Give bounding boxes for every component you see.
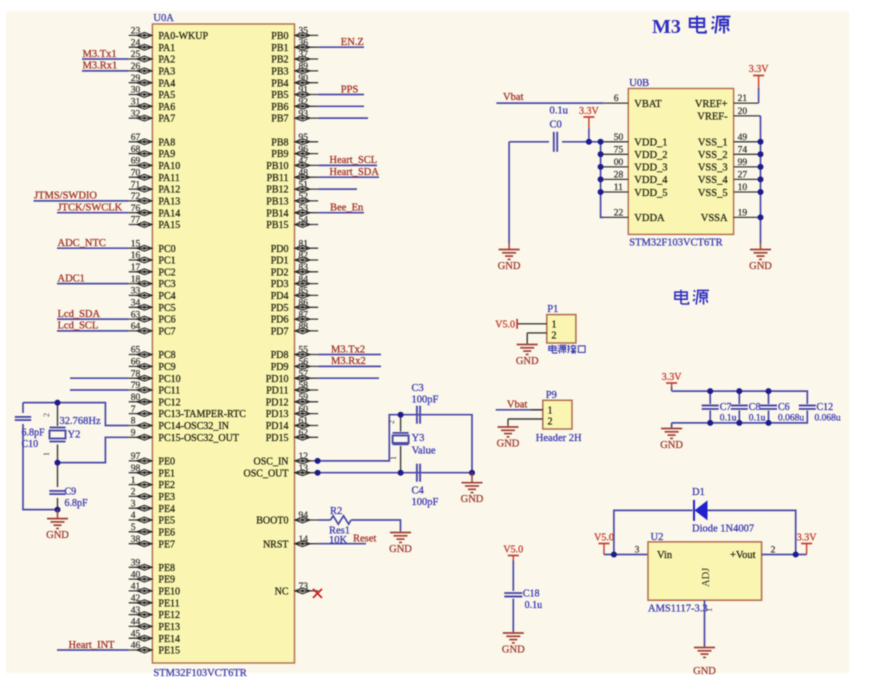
svg-text:38: 38 xyxy=(131,535,141,545)
svg-text:60: 60 xyxy=(299,405,309,415)
pin PC11 (79) U0A left xyxy=(129,381,181,396)
svg-text:ADJ: ADJ xyxy=(701,568,712,587)
svg-text:D1: D1 xyxy=(692,487,705,498)
svg-text:88: 88 xyxy=(299,322,309,332)
pin PE14 (45) U0A left xyxy=(129,629,180,644)
svg-text:21: 21 xyxy=(738,94,748,104)
pin VREF- (20) U0B right xyxy=(697,107,758,123)
svg-text:1: 1 xyxy=(389,456,398,460)
svg-text:99: 99 xyxy=(738,158,748,168)
svg-text:29: 29 xyxy=(131,74,141,84)
svg-text:58: 58 xyxy=(299,381,309,391)
svg-text:75: 75 xyxy=(614,145,624,155)
svg-text:PD6: PD6 xyxy=(271,315,289,326)
svg-text:PC7: PC7 xyxy=(158,327,175,338)
pin VSS_1 (49) U0B right xyxy=(698,133,758,149)
svg-text:PC8: PC8 xyxy=(158,350,175,361)
junction VSSA xyxy=(758,214,764,220)
pin PB0 (35) U0A right xyxy=(271,27,318,42)
pin PD1 (82) U0A right xyxy=(271,251,318,266)
pin VDD_3 (00) U0B left xyxy=(604,158,668,174)
pin PE2 (1) U0A left xyxy=(129,476,175,491)
wire BOOT0 to GND xyxy=(351,520,401,531)
svg-text:36: 36 xyxy=(299,38,309,48)
ground GND (C18) xyxy=(502,632,525,656)
pin ADJ (1) U2 xyxy=(701,568,714,612)
svg-text:+Vout: +Vout xyxy=(730,550,756,561)
pin PC14-OSC32_IN (8) U0A left xyxy=(129,417,229,432)
svg-text:P9: P9 xyxy=(546,390,557,401)
designator U2 xyxy=(651,532,664,543)
svg-text:PB15: PB15 xyxy=(266,220,288,231)
svg-text:72: 72 xyxy=(131,192,141,202)
pin VDDA (22) U0B left xyxy=(604,208,665,224)
svg-text:JTCK/SWCLK: JTCK/SWCLK xyxy=(58,203,123,214)
svg-text:Heart_SCL: Heart_SCL xyxy=(329,155,377,166)
svg-text:GND: GND xyxy=(502,644,525,655)
svg-text:PA3: PA3 xyxy=(158,67,175,78)
svg-text:PE0: PE0 xyxy=(158,457,175,468)
svg-text:PA9: PA9 xyxy=(158,149,175,160)
pin PB1 (36) U0A right xyxy=(271,38,318,53)
svg-text:Vbat: Vbat xyxy=(503,92,523,103)
pin PE5 (4) U0A left xyxy=(129,511,175,526)
net label M3.Rx2 + wire (PD9) xyxy=(318,356,381,367)
svg-text:89: 89 xyxy=(299,62,309,72)
svg-text:9: 9 xyxy=(131,429,136,439)
pin VREF+ (21) U0B right xyxy=(695,94,758,110)
wire C18 top xyxy=(512,561,514,592)
designator P1 xyxy=(547,304,558,315)
svg-text:PB3: PB3 xyxy=(271,67,288,78)
svg-text:PD2: PD2 xyxy=(271,267,289,278)
svg-text:95: 95 xyxy=(299,133,309,143)
svg-text:2: 2 xyxy=(552,331,557,342)
net label ADC_NTC + wire (PC0) xyxy=(57,238,129,249)
power port V5.0 (C18) xyxy=(503,545,523,561)
svg-text:Vbat: Vbat xyxy=(507,400,527,411)
ground GND (VSS) xyxy=(749,243,772,272)
comment Header 2H (P9) xyxy=(536,433,582,444)
pin PD9 (56) U0A right xyxy=(271,358,318,373)
svg-text:ADC_NTC: ADC_NTC xyxy=(58,238,106,249)
capacitor C8 0.1u xyxy=(731,391,766,423)
svg-text:Y3: Y3 xyxy=(412,433,425,444)
svg-text:PD8: PD8 xyxy=(271,350,289,361)
svg-text:18: 18 xyxy=(131,275,141,285)
IC U0B body xyxy=(628,89,733,235)
wire PB12 xyxy=(318,188,357,190)
svg-text:C10: C10 xyxy=(22,439,39,450)
svg-text:NC: NC xyxy=(275,587,289,598)
svg-text:PB6: PB6 xyxy=(271,102,288,113)
junction GND rail node xyxy=(469,470,475,476)
svg-text:0.1u: 0.1u xyxy=(550,106,569,117)
svg-text:PE7: PE7 xyxy=(158,539,175,550)
pin PA4 (29) U0A left xyxy=(129,74,176,89)
capacitor C0 0.1u xyxy=(550,106,569,152)
svg-text:49: 49 xyxy=(738,133,748,143)
capacitor C18 0.1u xyxy=(504,589,542,612)
pin PC8 (65) U0A left xyxy=(129,346,176,361)
ground GND (P9) xyxy=(497,425,520,450)
pin PA6 (31) U0A left xyxy=(129,98,176,113)
svg-text:Lcd_SCL: Lcd_SCL xyxy=(58,321,99,332)
svg-text:PA4: PA4 xyxy=(158,78,175,89)
svg-text:PC3: PC3 xyxy=(158,279,175,290)
svg-text:PC11: PC11 xyxy=(158,386,180,397)
svg-text:PE3: PE3 xyxy=(158,492,175,503)
svg-text:85: 85 xyxy=(299,287,309,297)
diode D1 1N4007 xyxy=(692,487,754,535)
svg-text:68: 68 xyxy=(131,145,141,155)
svg-text:44: 44 xyxy=(131,618,141,628)
pin PB10 (47) U0A right xyxy=(266,157,318,172)
svg-text:12: 12 xyxy=(299,452,309,462)
wire VSS stub xyxy=(758,191,760,193)
junction VDD bus xyxy=(598,189,604,195)
svg-text:2: 2 xyxy=(548,417,553,428)
power port 3.3V (VREF+) xyxy=(749,64,770,103)
power port 3.3V (C0) xyxy=(579,106,600,142)
pin PC10 (78) U0A left xyxy=(129,369,181,384)
svg-text:PD5: PD5 xyxy=(271,303,289,314)
pin VSS_5 (10) U0B right xyxy=(698,183,758,199)
pin PD15 (62) U0A right xyxy=(266,429,318,444)
svg-text:C7: C7 xyxy=(720,402,732,413)
svg-text:VREF+: VREF+ xyxy=(695,99,728,110)
junction VDD bus xyxy=(598,151,604,157)
svg-text:80: 80 xyxy=(131,393,141,403)
svg-text:98: 98 xyxy=(131,464,141,474)
wire OSC_OUT rail xyxy=(318,472,472,474)
svg-text:PA12: PA12 xyxy=(158,185,180,196)
svg-text:51: 51 xyxy=(299,180,309,190)
svg-text:C0: C0 xyxy=(550,120,562,131)
pin PC4 (33) U0A left xyxy=(129,287,176,302)
wire VSS stub xyxy=(758,166,760,168)
svg-text:66: 66 xyxy=(131,358,141,368)
svg-text:U0A: U0A xyxy=(153,13,174,24)
net label JTCK/SWCLK + wire (PA14) xyxy=(57,203,129,214)
svg-text:11: 11 xyxy=(614,183,623,193)
svg-text:10K: 10K xyxy=(329,535,348,546)
svg-text:0.068u: 0.068u xyxy=(778,414,804,424)
svg-text:PC9: PC9 xyxy=(158,362,175,373)
pin PE12 (43) U0A left xyxy=(129,606,180,621)
pin PB3 (89) U0A right xyxy=(271,62,318,77)
svg-text:PE4: PE4 xyxy=(158,504,175,515)
wire PD10 xyxy=(318,377,379,379)
svg-text:M3.Rx1: M3.Rx1 xyxy=(83,61,118,72)
pin VDD_5 (11) U0B left xyxy=(604,183,668,199)
svg-text:91: 91 xyxy=(299,86,309,96)
ground GND (BOOT0) xyxy=(389,531,412,555)
wire diode loop xyxy=(614,510,796,554)
wire cap bank bottom rail xyxy=(672,411,808,423)
svg-text:GND: GND xyxy=(46,530,69,541)
junction VDD bus xyxy=(598,164,604,170)
svg-text:PC5: PC5 xyxy=(158,303,175,314)
svg-text:PB7: PB7 xyxy=(271,114,288,125)
power port 3.3V (cap bank) xyxy=(662,372,683,391)
svg-text:00: 00 xyxy=(614,158,624,168)
svg-text:59: 59 xyxy=(299,393,309,403)
pin PE3 (2) U0A left xyxy=(129,488,175,503)
title M3 dianyuan xyxy=(652,16,730,38)
svg-text:71: 71 xyxy=(131,180,141,190)
pin 1 (P1) xyxy=(517,320,556,331)
svg-text:73: 73 xyxy=(299,582,309,592)
svg-text:15: 15 xyxy=(131,239,141,249)
pin PC12 (80) U0A left xyxy=(129,393,181,408)
net label Lcd_SCL + wire (PC7) xyxy=(57,321,129,332)
pin PA5 (30) U0A left xyxy=(129,86,176,101)
svg-text:1: 1 xyxy=(552,320,557,331)
pin PC15-OSC32_OUT (9) U0A left xyxy=(129,429,239,444)
svg-text:PB1: PB1 xyxy=(271,43,288,54)
pin PA8 (67) U0A left xyxy=(129,133,176,148)
svg-text:3.3V: 3.3V xyxy=(749,64,770,75)
svg-text:16: 16 xyxy=(131,251,141,261)
power port V5.0 (U2 in) xyxy=(594,533,614,555)
pin OSC_OUT (13) U0A right xyxy=(243,464,318,479)
wire OSC_IN to crystal top xyxy=(318,415,400,461)
svg-text:33: 33 xyxy=(131,287,141,297)
svg-text:6.8pF: 6.8pF xyxy=(65,498,89,509)
pin VSSA (19) U0B right xyxy=(701,208,758,224)
pin PB5 (91) U0A right xyxy=(271,86,318,101)
svg-text:PD1: PD1 xyxy=(271,256,289,267)
svg-text:C9: C9 xyxy=(65,487,77,498)
svg-text:2: 2 xyxy=(42,413,51,417)
svg-text:19: 19 xyxy=(738,208,748,218)
svg-text:PD10: PD10 xyxy=(266,374,289,385)
svg-text:U2: U2 xyxy=(651,532,664,543)
svg-text:GND: GND xyxy=(497,438,520,449)
svg-text:PC2: PC2 xyxy=(158,267,175,278)
svg-text:63: 63 xyxy=(131,310,141,320)
pin PC1 (16) U0A left xyxy=(129,251,176,266)
svg-text:ADC1: ADC1 xyxy=(58,273,85,284)
capacitor C3 100pF xyxy=(412,383,439,424)
svg-text:28: 28 xyxy=(614,170,624,180)
svg-text:PA14: PA14 xyxy=(158,208,180,219)
svg-text:PC4: PC4 xyxy=(158,291,175,302)
net label Vbat + wire (VBAT pin6) xyxy=(496,92,603,103)
svg-text:PA11: PA11 xyxy=(158,173,180,184)
pin NC (73) U0A right xyxy=(275,582,319,597)
svg-text:C8: C8 xyxy=(749,402,761,413)
resistor R2 Res1 10K xyxy=(318,506,351,546)
wire VSS bus xyxy=(760,116,762,243)
svg-text:40: 40 xyxy=(131,570,141,580)
svg-text:R2: R2 xyxy=(330,506,342,517)
junction C8 top xyxy=(736,388,742,426)
svg-text:70: 70 xyxy=(131,168,141,178)
svg-text:PB14: PB14 xyxy=(266,208,288,219)
junction VSS bus xyxy=(758,151,764,157)
svg-text:PE2: PE2 xyxy=(158,480,175,491)
svg-text:C12: C12 xyxy=(817,402,834,413)
svg-text:6.8pF: 6.8pF xyxy=(22,428,46,439)
svg-text:Y2: Y2 xyxy=(68,430,81,441)
svg-text:64: 64 xyxy=(131,322,141,332)
svg-text:Header 2H: Header 2H xyxy=(536,433,582,444)
svg-text:67: 67 xyxy=(131,133,141,143)
svg-text:PD3: PD3 xyxy=(271,279,289,290)
svg-text:GND: GND xyxy=(461,494,484,505)
svg-text:Reset: Reset xyxy=(353,534,376,545)
svg-text:26: 26 xyxy=(131,62,141,72)
svg-text:17: 17 xyxy=(131,263,141,273)
svg-text:57: 57 xyxy=(299,369,309,379)
svg-text:VSS_4: VSS_4 xyxy=(698,175,729,186)
svg-text:PE15: PE15 xyxy=(158,646,180,657)
pin OSC_IN (12) U0A right xyxy=(253,452,318,467)
pin PD11 (58) U0A right xyxy=(266,381,318,396)
svg-text:PC14-OSC32_IN: PC14-OSC32_IN xyxy=(158,421,229,432)
svg-text:76: 76 xyxy=(131,204,141,214)
pin Vin (3) U2 xyxy=(635,546,673,562)
junction OSC_OUT node xyxy=(315,470,404,476)
svg-text:39: 39 xyxy=(131,559,141,569)
svg-text:GND: GND xyxy=(660,440,683,451)
wire cap bank left down xyxy=(671,423,673,428)
svg-text:PB8: PB8 xyxy=(271,137,288,148)
wire cap bank top rail xyxy=(672,391,808,404)
svg-text:PB9: PB9 xyxy=(271,149,288,160)
net label M3.Tx2 + wire (PD8) xyxy=(318,344,381,355)
pin VDD_2 (75) U0B left xyxy=(604,145,668,161)
junction 3.3V/C0 xyxy=(586,139,592,145)
pin PB14 (53) U0A right xyxy=(266,204,318,219)
pin PC2 (17) U0A left xyxy=(129,263,176,278)
svg-text:31: 31 xyxy=(131,98,141,108)
pin VDD_1 (50) U0B left xyxy=(604,133,668,149)
svg-text:GND: GND xyxy=(389,544,412,555)
capacitor C4 100pF xyxy=(412,464,439,508)
net label ADC1 + wire (PC3) xyxy=(57,273,129,284)
svg-text:87: 87 xyxy=(299,310,309,320)
wire VSS stub xyxy=(758,153,760,155)
svg-text:M3.Tx2: M3.Tx2 xyxy=(331,344,365,355)
svg-text:PA8: PA8 xyxy=(158,137,175,148)
pin PE10 (41) U0A left xyxy=(129,582,180,597)
svg-text:3.3V: 3.3V xyxy=(662,372,683,383)
svg-text:20: 20 xyxy=(738,107,748,117)
svg-text:45: 45 xyxy=(131,629,141,639)
pin PE7 (38) U0A left xyxy=(129,535,175,550)
svg-text:0.1u: 0.1u xyxy=(525,600,543,611)
svg-text:78: 78 xyxy=(131,369,141,379)
pin PE0 (97) U0A left xyxy=(129,452,175,467)
svg-text:PA6: PA6 xyxy=(158,102,175,113)
pin 2 (P9) xyxy=(508,417,553,428)
pin PB9 (96) U0A right xyxy=(271,145,318,160)
svg-text:PB4: PB4 xyxy=(271,78,288,89)
svg-text:54: 54 xyxy=(299,216,309,226)
svg-text:74: 74 xyxy=(738,145,748,155)
pin PE4 (3) U0A left xyxy=(129,499,175,514)
pin PE1 (98) U0A left xyxy=(129,464,175,479)
pin PA7 (32) U0A left xyxy=(129,109,176,124)
junction VSS bus xyxy=(758,139,764,145)
svg-text:PD15: PD15 xyxy=(266,433,289,444)
svg-text:43: 43 xyxy=(131,606,141,616)
pin VDD_4 (28) U0B left xyxy=(604,170,669,186)
svg-text:25: 25 xyxy=(131,50,141,60)
svg-text:PD0: PD0 xyxy=(271,244,289,255)
svg-text:PA7: PA7 xyxy=(158,114,175,125)
wire C18 bottom xyxy=(512,599,514,632)
svg-text:PE12: PE12 xyxy=(158,610,180,621)
pin PE8 (39) U0A left xyxy=(129,559,175,574)
wire C0 rail / VDD_1 xyxy=(509,142,604,243)
pin PB6 (92) U0A right xyxy=(271,98,318,113)
svg-text:62: 62 xyxy=(299,429,309,439)
svg-text:1: 1 xyxy=(704,608,714,612)
svg-text:84: 84 xyxy=(299,275,309,285)
svg-text:EN.Z: EN.Z xyxy=(341,37,364,48)
pin VBAT (6) U0B left xyxy=(604,94,663,110)
pin PA14 (76) U0A left xyxy=(129,204,181,219)
pin PD2 (83) U0A right xyxy=(271,263,318,278)
net label EN.Z + wire (PB1) xyxy=(318,37,364,48)
pin PB15 (54) U0A right xyxy=(266,216,318,231)
wire Vin xyxy=(604,554,648,556)
svg-text:34: 34 xyxy=(131,299,141,309)
net label Heart_INT + wire (PE15) xyxy=(57,640,129,651)
junction VSS bus xyxy=(758,189,764,195)
svg-text:0.1u: 0.1u xyxy=(720,414,737,424)
wire PB6 xyxy=(318,105,364,107)
pin PD0 (81) U0A right xyxy=(271,239,318,254)
svg-text:VSS_3: VSS_3 xyxy=(698,163,728,174)
svg-text:PC13-TAMPER-RTC: PC13-TAMPER-RTC xyxy=(158,409,246,420)
net label Reset + wire (NRST) xyxy=(318,534,376,545)
wire VDD bus xyxy=(601,142,604,218)
crystal Y3 Value xyxy=(387,420,436,460)
pin PA11 (70) U0A left xyxy=(129,168,180,183)
svg-text:3.3V: 3.3V xyxy=(579,106,600,117)
ground GND (C0) xyxy=(498,243,521,272)
designator U0A xyxy=(153,13,174,24)
junction node C9/C10 gnd xyxy=(55,507,61,513)
junction C6 top xyxy=(766,388,772,426)
pin PB7 (93) U0A right xyxy=(271,109,318,124)
pin PC5 (34) U0A left xyxy=(129,299,176,314)
svg-text:14: 14 xyxy=(299,535,309,545)
svg-text:35: 35 xyxy=(299,27,309,37)
wire pin2 to GND xyxy=(526,333,528,343)
svg-text:13: 13 xyxy=(299,464,309,474)
connector P9 body xyxy=(543,400,572,429)
svg-text:NRST: NRST xyxy=(263,539,289,550)
junction VDD bus top xyxy=(598,139,604,145)
net label PPS + wire (PB5) xyxy=(318,84,364,95)
junction Vin/diode xyxy=(611,552,617,558)
svg-text:56: 56 xyxy=(299,358,309,368)
svg-text:PD13: PD13 xyxy=(266,409,289,420)
svg-text:PD7: PD7 xyxy=(271,327,289,338)
svg-text:65: 65 xyxy=(131,346,141,356)
svg-text:Bee_En: Bee_En xyxy=(330,203,364,214)
wire PC11 xyxy=(70,389,129,391)
svg-text:2: 2 xyxy=(387,420,396,424)
comment AMS1117-3.3 xyxy=(648,604,708,615)
power port V5.0 (P1) xyxy=(495,319,517,331)
